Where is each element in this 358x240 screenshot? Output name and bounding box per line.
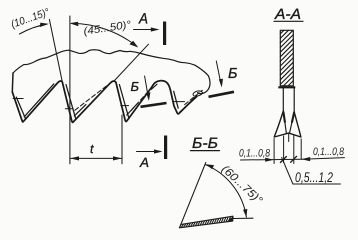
tooth stem right side bbox=[293, 88, 295, 112]
inner bevel line, tooth 3 front face bbox=[174, 91, 179, 108]
swaged tip inner left line (thick upper part) bbox=[283, 112, 285, 122]
arrowhead of rake angle arc bbox=[40, 23, 49, 28]
label A-A underline bbox=[274, 20, 303, 22]
hidden bevel dashed line, tooth 4 bbox=[185, 90, 203, 104]
right dimension tail line bbox=[302, 158, 345, 160]
svg-text:А: А bbox=[138, 10, 148, 27]
arc for rake angle (10...15) bbox=[20, 24, 47, 34]
tooth back edge extension line bbox=[115, 44, 149, 80]
svg-text:Б: Б bbox=[130, 79, 139, 94]
inner bevel line, tooth 2 front face bbox=[119, 85, 129, 119]
lower arrowhead of (60...75) arc bbox=[243, 209, 247, 217]
section arrow B (right) bbox=[216, 61, 221, 84]
heavy line under blade body bbox=[278, 86, 295, 88]
rake face extension line bbox=[49, 20, 62, 82]
inner bevel segment at tooth 3 dome bbox=[151, 84, 157, 89]
center stub below swaged tip bbox=[288, 134, 290, 142]
slash tick at left blade side bbox=[280, 157, 286, 163]
svg-text:0,5...1,2: 0,5...1,2 bbox=[295, 169, 333, 185]
swaged tip inner right line bbox=[290, 121, 293, 132]
bevel wedge (hatched sliver) bbox=[179, 216, 233, 228]
swaged tip inner left line bbox=[285, 121, 287, 133]
svg-text:t: t bbox=[90, 142, 94, 156]
section plane trace B (right, past blade end) bbox=[209, 92, 235, 97]
swaged tip outline (spade) bbox=[274, 111, 301, 137]
svg-text:А-А: А-А bbox=[274, 6, 301, 23]
upper arrowhead of (60...75) arc bbox=[206, 164, 214, 169]
left arrowhead of (45...50) arc bbox=[70, 22, 79, 27]
label B-B underline bbox=[191, 150, 220, 152]
right arrowhead of (45...50) arc bbox=[129, 41, 138, 48]
wedge top edge extension line bbox=[233, 217, 253, 219]
gullet facet line, gullet 3 bbox=[173, 101, 185, 103]
section plane trace B (left, on tooth 3 back) bbox=[141, 103, 167, 107]
wavy break line (top outline of blade) bbox=[13, 50, 209, 76]
wedge right end dark fill bbox=[227, 216, 234, 222]
extension line right for pitch t bbox=[121, 115, 123, 164]
wedge hatching bbox=[182, 217, 231, 227]
left arrowhead pointing right at flare bbox=[265, 158, 274, 162]
section plane bar A (top) bbox=[163, 22, 166, 46]
blade right end break curve bbox=[198, 76, 211, 94]
arc for sharpness angle (45...50) bbox=[72, 23, 137, 46]
blade right end loop stroke bbox=[193, 91, 202, 96]
svg-text:0,1...0,8: 0,1...0,8 bbox=[239, 147, 270, 159]
leader for swage width bbox=[282, 158, 341, 185]
gullet facet line, gullet 2 bbox=[121, 105, 129, 107]
inner bevel line, tooth 2 back edge (near gullet) bbox=[74, 105, 86, 116]
svg-text:Б-Б: Б-Б bbox=[192, 135, 218, 152]
svg-text:Б: Б bbox=[228, 66, 237, 82]
arc for angle (60...75) bbox=[206, 165, 247, 217]
slash tick at right blade side bbox=[291, 156, 297, 162]
inner bevel line, left end arm bbox=[16, 97, 25, 119]
tooth stem left side bbox=[282, 88, 284, 111]
section arrow B (left) bbox=[145, 76, 149, 98]
swaged tip inner right line (thick upper part) bbox=[292, 113, 294, 123]
pitch dimension line t bbox=[70, 157, 122, 159]
section arrow A (top) bbox=[134, 29, 157, 31]
section plane bar A (bottom) bbox=[164, 136, 167, 160]
hatching of blade body bbox=[280, 30, 293, 85]
gullet facet line, gullet 1 bbox=[65, 108, 73, 110]
right arrowhead of t bbox=[113, 156, 122, 160]
left arrowhead of t bbox=[70, 156, 79, 160]
svg-text:0,1...0,8: 0,1...0,8 bbox=[313, 146, 344, 158]
inner bevel line, tooth 1 back edge bbox=[24, 84, 54, 117]
extension line at right blade side bbox=[293, 135, 295, 164]
svg-text:А: А bbox=[139, 155, 149, 170]
inner bevel line, tooth 4 back edge bbox=[180, 97, 197, 112]
blade body (hatched rectangle) bbox=[280, 30, 293, 86]
blade left end edge bbox=[11, 73, 14, 92]
right arrowhead pointing left at flare bbox=[301, 157, 310, 161]
gullet facet line, left end bbox=[13, 98, 23, 100]
inner bevel line, tooth 1 front face bbox=[66, 85, 76, 119]
vertical reference line through gullet 1 bbox=[69, 16, 71, 164]
hidden bevel dashed line, tooth 2 bbox=[75, 83, 111, 111]
dimension line for set overhang bbox=[241, 158, 303, 161]
extension line at left flare bbox=[273, 139, 275, 164]
inner bevel line, tooth 3 back edge (near gullet) bbox=[127, 103, 138, 115]
extension line at right flare bbox=[300, 139, 302, 159]
hidden bevel dashed line, tooth 3 bbox=[131, 88, 152, 111]
sharpening angle left line bbox=[180, 163, 206, 228]
section arrow A (bottom) bbox=[137, 151, 160, 153]
tooth profile outer edge (teeth 1-4) bbox=[12, 81, 196, 123]
extension line at left blade side bbox=[283, 136, 285, 163]
